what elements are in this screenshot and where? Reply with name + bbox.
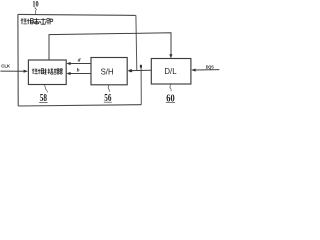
underline 56 bbox=[104, 101, 112, 103]
svg-text:d: d bbox=[78, 58, 81, 64]
signal d wire (S/H to comparator, upper) bbox=[70, 63, 91, 65]
svg-text:b: b bbox=[77, 67, 80, 73]
outer box 10 top edge bbox=[18, 14, 136, 15]
delay line block 60 bbox=[151, 59, 191, 85]
leader line for 60 bbox=[170, 84, 171, 91]
junction dot bbox=[129, 69, 132, 72]
leader line for 58 bbox=[44, 85, 47, 92]
outer box 10 bottom edge bbox=[18, 105, 141, 106]
underline 58 bbox=[39, 101, 47, 103]
leader line for 10 bbox=[35, 7, 36, 14]
svg-text:S/H: S/H bbox=[101, 67, 114, 76]
arrowhead d bbox=[66, 62, 70, 65]
outer box 10 right edge lower segment top tip bbox=[140, 65, 142, 68]
text 位相比較器 (pseudo-glyphs) bbox=[32, 68, 63, 74]
phase comparator block 58 bbox=[28, 60, 66, 85]
outer box 10 right edge lower segment bbox=[140, 67, 142, 105]
svg-text:10: 10 bbox=[32, 0, 38, 9]
svg-text:DQS: DQS bbox=[206, 65, 214, 70]
leader line for 56 bbox=[108, 85, 109, 92]
control wire comparator top to D/L top bbox=[49, 33, 171, 60]
outer box 10 left edge bbox=[17, 14, 19, 106]
svg-text:CLK: CLK bbox=[1, 64, 10, 70]
arrowhead into D/L right edge bbox=[191, 69, 196, 72]
CLK input wire bbox=[0, 70, 24, 72]
CLK arrowhead bbox=[24, 70, 28, 73]
underline 60 bbox=[166, 101, 175, 103]
DQS input wire bbox=[195, 69, 219, 71]
S/H block 56 bbox=[91, 58, 127, 85]
signal b wire (S/H to comparator, lower) bbox=[70, 73, 91, 75]
arrowhead b bbox=[66, 72, 70, 75]
arrowhead into D/L top bbox=[169, 54, 172, 58]
wire D/L output to S/H input bbox=[131, 69, 152, 71]
text 位相検出部 (pseudo-glyphs) bbox=[21, 18, 53, 24]
outer box 10 right edge upper segment bbox=[135, 15, 138, 70]
arrowhead into S/H right edge bbox=[127, 69, 131, 72]
svg-text:D/L: D/L bbox=[164, 67, 177, 76]
